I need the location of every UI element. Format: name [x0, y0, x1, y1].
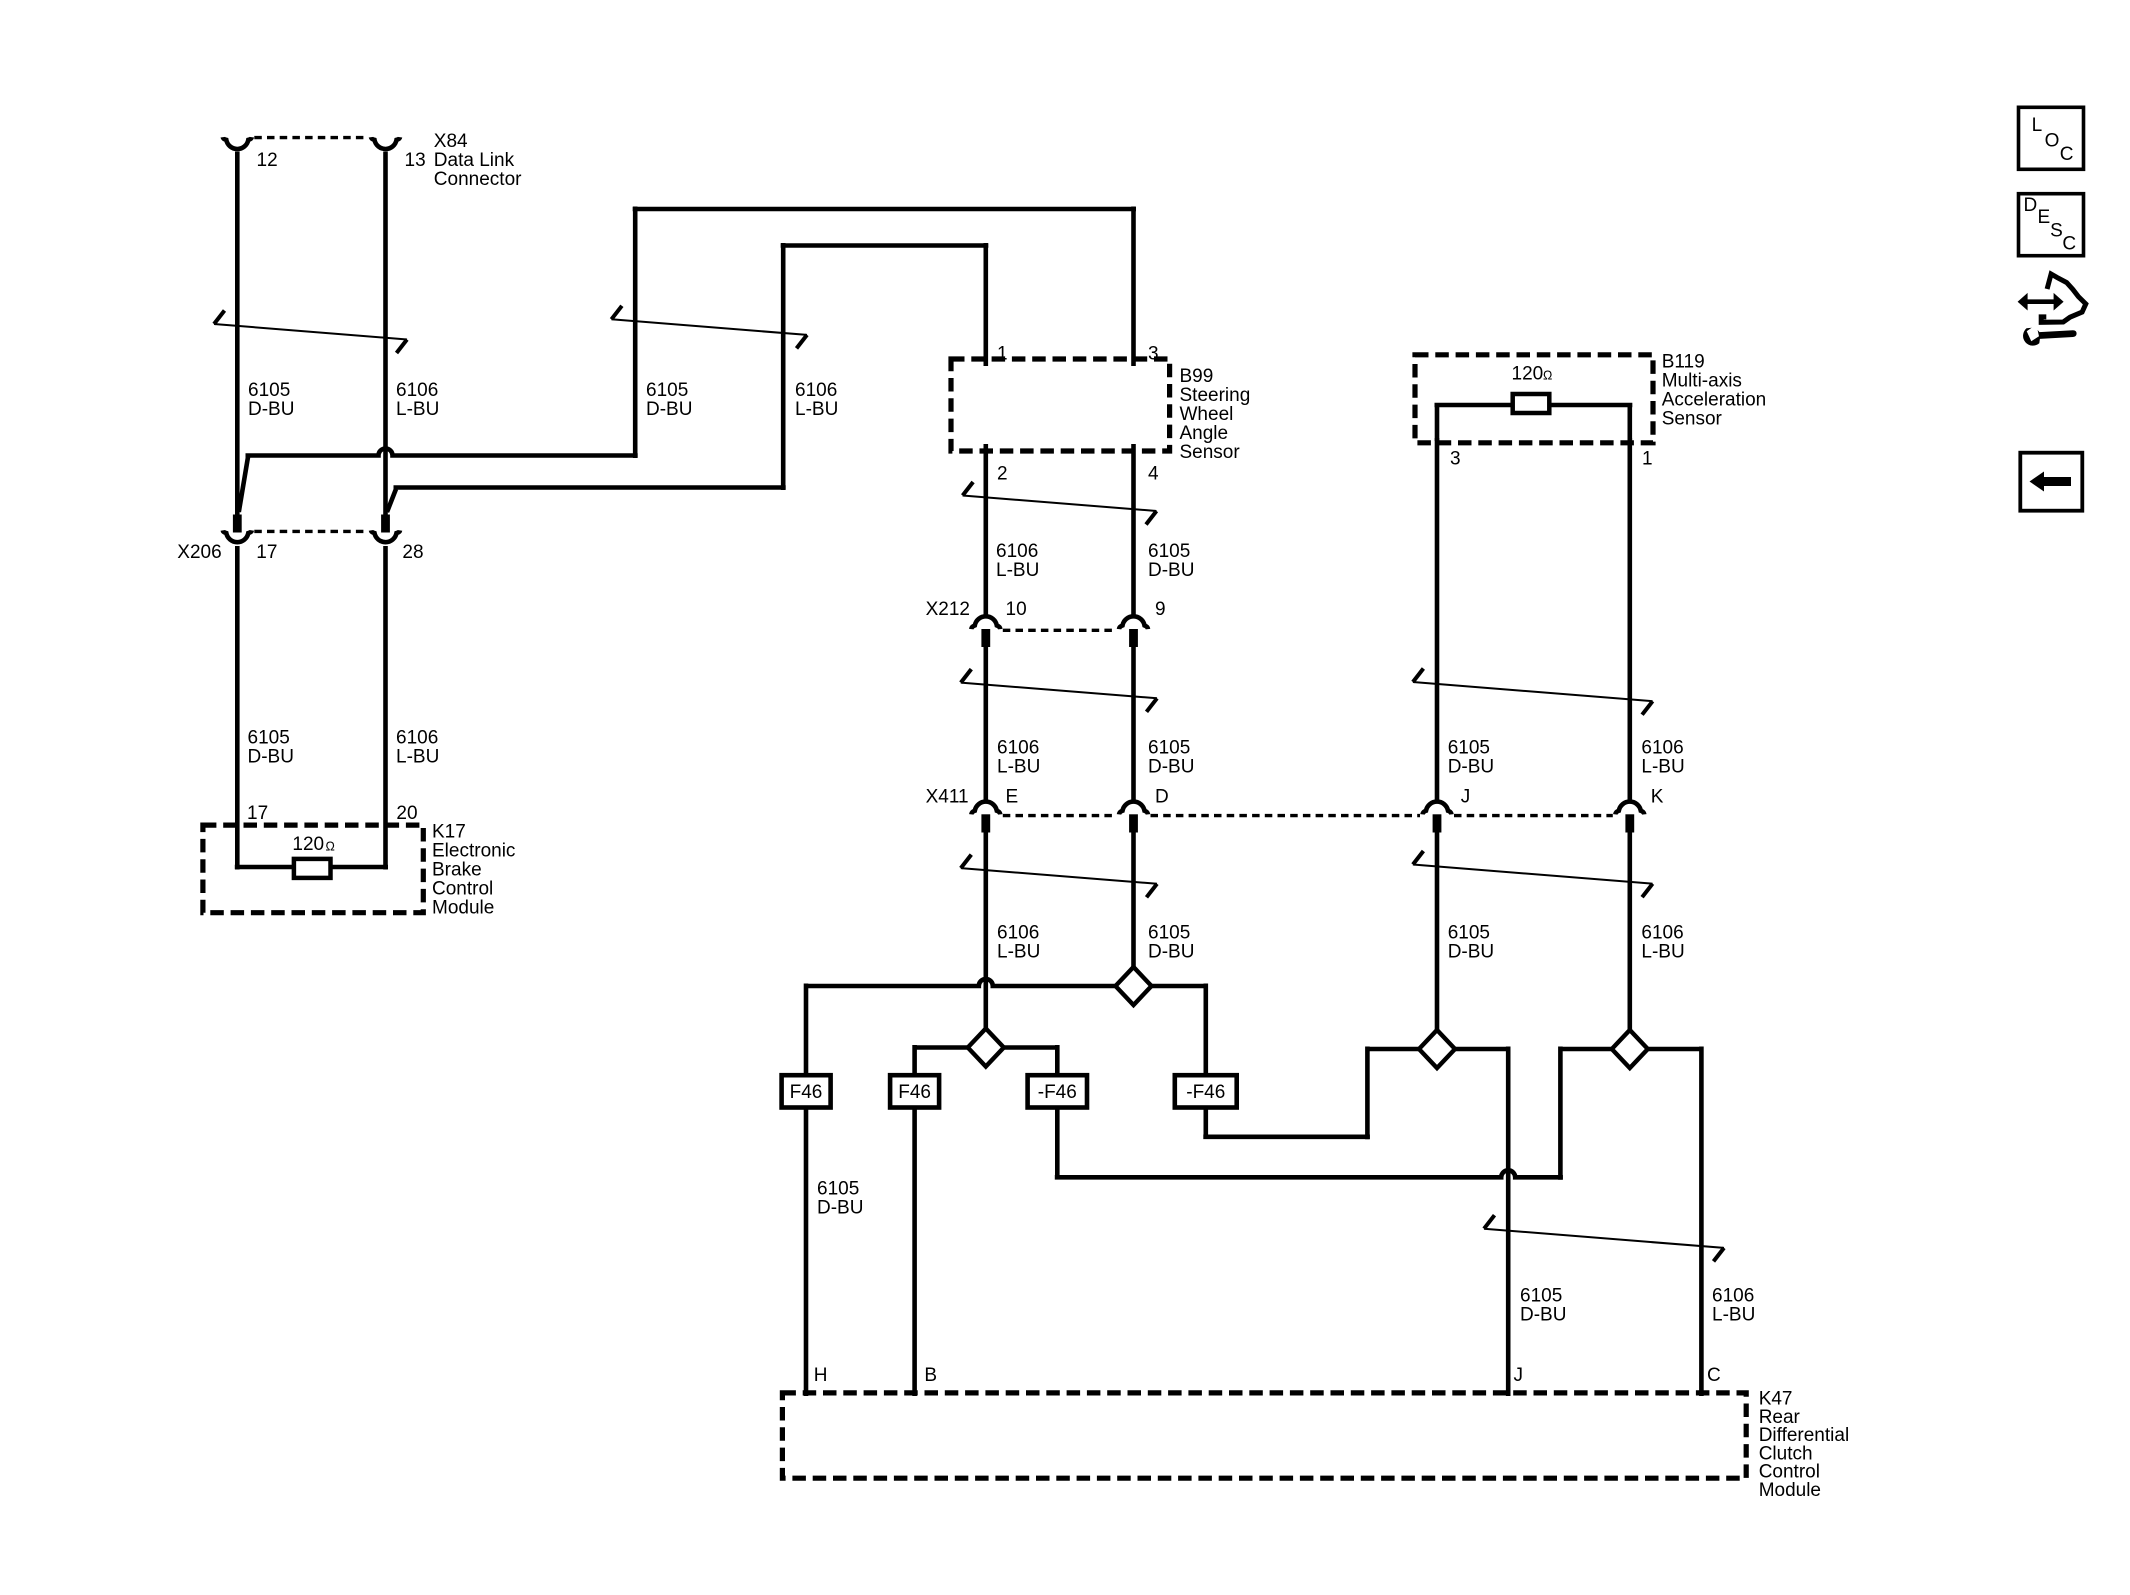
svg-text:-F46: -F46	[1186, 1082, 1225, 1103]
svg-text:Module: Module	[432, 898, 494, 919]
wire splice-E horizontal left	[915, 1045, 968, 1050]
svg-text:6106: 6106	[996, 541, 1038, 562]
svg-text:L-BU: L-BU	[1641, 757, 1684, 778]
svg-text:C: C	[1707, 1365, 1721, 1386]
svg-text:6105: 6105	[1520, 1286, 1562, 1307]
icon DESC box	[2019, 194, 2084, 256]
svg-text:Electronic: Electronic	[432, 841, 515, 862]
svg-text:6106: 6106	[396, 728, 438, 749]
wire inner loop top	[781, 243, 989, 248]
svg-text:Wheel: Wheel	[1180, 404, 1234, 425]
svg-text:E: E	[1006, 787, 1019, 808]
svg-text:X411: X411	[926, 787, 969, 808]
wire drop to F46 no2	[912, 1045, 917, 1077]
fuse box F46 no2	[890, 1075, 939, 1107]
wire 6105 X84-12 to X206-17	[235, 152, 240, 515]
svg-text:L-BU: L-BU	[1712, 1305, 1755, 1326]
twisted pair marker loop pair	[611, 319, 807, 335]
wire outer loop right leg to B99 pin 3	[1131, 207, 1136, 367]
svg-text:Angle: Angle	[1180, 423, 1229, 444]
connector X411 pin D terminal	[1119, 802, 1148, 815]
connector X411 dashed line seg E-D	[1003, 814, 1117, 817]
svg-text:X84: X84	[434, 131, 468, 152]
wire branch junction A	[239, 457, 248, 512]
svg-text:F46: F46	[790, 1082, 823, 1103]
wire outer loop left leg	[633, 207, 638, 459]
svg-text:D-BU: D-BU	[1148, 560, 1194, 581]
svg-text:6106: 6106	[1641, 923, 1683, 944]
fuse box -F46 no4	[1175, 1075, 1237, 1107]
wire inner loop left leg	[781, 243, 786, 490]
svg-text:C: C	[2062, 234, 2076, 255]
svg-text:D-BU: D-BU	[248, 747, 294, 768]
twisted pair marker bottom JC	[1484, 1229, 1724, 1248]
connector X84 pin 13 terminal	[371, 137, 400, 149]
connector X411 dashed line seg J-K	[1454, 814, 1613, 817]
wire splice-F horizontal left	[806, 979, 1116, 986]
connector X411 dashed line seg D-J	[1151, 814, 1421, 817]
svg-text:D-BU: D-BU	[248, 399, 294, 420]
svg-text:6105: 6105	[1148, 738, 1190, 759]
svg-text:6105: 6105	[817, 1179, 859, 1200]
connector X206 pin 17 terminal	[223, 530, 252, 542]
wire -F46 no4 horizontal	[1203, 1135, 1370, 1140]
wire -F46 no4 to splice J path	[1204, 1108, 1209, 1137]
connector X411 pin E male pin	[981, 814, 990, 832]
svg-text:B99: B99	[1180, 366, 1214, 387]
connector X212 pin 10 male pin	[981, 629, 990, 647]
wire branch junction B	[387, 489, 396, 512]
svg-text:6105: 6105	[646, 380, 688, 401]
svg-text:6106: 6106	[997, 738, 1039, 759]
svg-text:E: E	[2038, 207, 2051, 228]
fuse box -F46 no3	[1028, 1075, 1087, 1107]
svg-text:K17: K17	[432, 822, 466, 843]
component K17 dashed box	[203, 825, 423, 913]
wire 6106 X411-K to splice	[1628, 830, 1633, 1032]
component K47 dashed box	[782, 1393, 1746, 1478]
svg-text:Data Link: Data Link	[434, 150, 515, 171]
wire splice K to K47-C	[1699, 1047, 1704, 1397]
wire 6106 X84-13 to X206-28	[383, 152, 388, 515]
svg-text:Ω: Ω	[1543, 369, 1552, 383]
svg-text:Module: Module	[1759, 1480, 1821, 1501]
svg-text:L-BU: L-BU	[396, 399, 439, 420]
svg-text:Acceleration: Acceleration	[1662, 390, 1767, 411]
svg-text:C: C	[2060, 144, 2074, 165]
wire 6106 B99-2 to X212-10	[983, 444, 988, 617]
connector X212 pin 10 terminal	[971, 616, 1000, 629]
splice diamond on 6106 (E)	[968, 1029, 1004, 1067]
connector X411 pin K terminal	[1615, 802, 1644, 815]
svg-text:X212: X212	[926, 599, 970, 620]
svg-text:9: 9	[1155, 599, 1166, 620]
svg-text:B: B	[924, 1365, 937, 1386]
wire splice J to K47-J	[1506, 1047, 1511, 1397]
connector X206 pin 28 terminal	[371, 530, 400, 542]
twisted pair marker X84 pair	[214, 324, 407, 340]
wire 6105 X212-9 to X411-D	[1131, 645, 1136, 803]
wire 6106 X212-10 to X411-E	[983, 645, 988, 803]
svg-text:X206: X206	[177, 542, 221, 563]
svg-text:K: K	[1651, 787, 1664, 808]
svg-text:D: D	[1155, 787, 1169, 808]
wire B119 internal right	[1628, 403, 1633, 441]
splice diamond on 6106 (K)	[1612, 1030, 1648, 1068]
svg-text:D-BU: D-BU	[1448, 757, 1494, 778]
svg-text:L-BU: L-BU	[996, 560, 1039, 581]
wire outer loop top	[633, 207, 1136, 212]
svg-text:B119: B119	[1662, 352, 1705, 373]
wire horizontal junction B to inner loop leg	[394, 485, 786, 490]
icon LOC box	[2019, 107, 2084, 169]
wire 6105 F46 no1 to K47-H	[804, 1108, 809, 1397]
wire 6106 F46 no2 to K47-B	[912, 1108, 917, 1397]
svg-text:6106: 6106	[1641, 738, 1683, 759]
fuse box F46 no1	[782, 1075, 831, 1107]
svg-text:120: 120	[1512, 364, 1544, 385]
wire splice-J horizontal right	[1455, 1047, 1508, 1052]
svg-text:D: D	[2024, 195, 2038, 216]
wire 6105 X411-J to splice	[1435, 830, 1440, 1032]
svg-text:Steering: Steering	[1180, 385, 1251, 406]
wire horizontal junction A to loop leg	[246, 449, 638, 456]
svg-text:6106: 6106	[1712, 1286, 1754, 1307]
svg-text:F46: F46	[898, 1082, 931, 1103]
wire riser to splice K	[1558, 1047, 1563, 1180]
svg-text:2: 2	[997, 464, 1008, 485]
twisted pair marker X411-splice JK	[1413, 865, 1653, 884]
svg-text:13: 13	[405, 150, 426, 171]
svg-text:6105: 6105	[1148, 541, 1190, 562]
connector X411 pin J male pin	[1433, 814, 1442, 832]
wire drop to F46 no1	[804, 984, 809, 1078]
svg-text:20: 20	[396, 803, 417, 824]
splice diamond on 6105 (D)	[1116, 967, 1152, 1005]
connector X206 dashed line	[254, 530, 368, 533]
wire splice-J horizontal left	[1367, 1047, 1419, 1052]
wire riser to splice J	[1365, 1047, 1370, 1140]
svg-text:10: 10	[1006, 599, 1027, 620]
wire B119 internal left	[1435, 403, 1440, 441]
svg-text:6105: 6105	[248, 728, 290, 749]
wire 6105 X206-17 to K17	[235, 546, 240, 870]
splice diamond on 6105 (J)	[1419, 1030, 1455, 1068]
twisted pair marker X212-X411	[961, 683, 1157, 699]
resistor 120 ohm B119	[1513, 394, 1550, 413]
svg-text:J: J	[1514, 1365, 1524, 1386]
connector X206 pin 17 male pin	[233, 515, 242, 533]
svg-text:3: 3	[1450, 449, 1461, 470]
svg-text:Sensor: Sensor	[1662, 409, 1723, 430]
svg-text:L-BU: L-BU	[396, 747, 439, 768]
svg-text:17: 17	[247, 803, 268, 824]
svg-text:J: J	[1461, 787, 1471, 808]
connector X212 pin 9 terminal	[1119, 616, 1148, 629]
svg-text:H: H	[814, 1365, 828, 1386]
svg-text:28: 28	[402, 542, 423, 563]
connector X212 pin 9 male pin	[1129, 629, 1138, 647]
svg-text:Ω: Ω	[326, 840, 335, 854]
svg-text:O: O	[2045, 130, 2060, 151]
connector X84 pin 12 terminal	[223, 137, 252, 149]
wire 6105 B119-3 to X411-J	[1435, 438, 1440, 803]
svg-text:D-BU: D-BU	[1520, 1305, 1566, 1326]
svg-text:L-BU: L-BU	[997, 757, 1040, 778]
svg-text:6105: 6105	[248, 380, 290, 401]
svg-text:D-BU: D-BU	[1448, 942, 1494, 963]
svg-text:1: 1	[1642, 449, 1653, 470]
wire inner loop right leg to B99 pin 1	[983, 243, 988, 366]
svg-text:3: 3	[1148, 344, 1159, 365]
svg-text:17: 17	[256, 542, 277, 563]
svg-text:D-BU: D-BU	[817, 1198, 863, 1219]
twisted pair marker X411-splice EF	[961, 868, 1157, 884]
component B119 dashed box	[1415, 355, 1653, 443]
svg-text:6106: 6106	[795, 380, 837, 401]
svg-text:Brake: Brake	[432, 860, 482, 881]
svg-text:6105: 6105	[1448, 923, 1490, 944]
icon back arrow box	[2020, 453, 2082, 511]
connector X411 pin E terminal	[971, 802, 1000, 815]
wire 6105 X411-D to splice	[1131, 830, 1136, 969]
connector X212 dashed line	[1003, 629, 1117, 632]
svg-text:Control: Control	[432, 879, 493, 900]
wire -F46 no3 horizontal	[1055, 1170, 1563, 1177]
wire 6106 X206-28 to K17	[383, 546, 388, 870]
icon repair instructions	[2018, 293, 2064, 311]
svg-text:L-BU: L-BU	[795, 399, 838, 420]
svg-text:L-BU: L-BU	[1641, 942, 1684, 963]
svg-text:L: L	[2032, 115, 2043, 136]
wire 6106 B119-1 to X411-K	[1628, 438, 1633, 803]
svg-text:Multi-axis: Multi-axis	[1662, 371, 1742, 392]
svg-text:Sensor: Sensor	[1180, 442, 1241, 463]
connector X411 pin J terminal	[1423, 802, 1452, 815]
svg-text:D-BU: D-BU	[1148, 757, 1194, 778]
connector X84 dashed line	[254, 136, 368, 139]
connector X411 pin D male pin	[1129, 814, 1138, 832]
svg-text:Connector: Connector	[434, 169, 522, 190]
svg-text:4: 4	[1148, 464, 1159, 485]
svg-text:6106: 6106	[396, 380, 438, 401]
wire 6106 X411-E to splice	[983, 830, 988, 1030]
svg-text:D-BU: D-BU	[1148, 942, 1194, 963]
wire drop to -F46 no4	[1204, 984, 1209, 1078]
svg-text:1: 1	[997, 344, 1008, 365]
wire 6105 B99-4 to X212-9	[1131, 444, 1136, 617]
svg-text:6106: 6106	[997, 923, 1039, 944]
connector X206 pin 28 male pin	[381, 515, 390, 533]
svg-text:6105: 6105	[1448, 738, 1490, 759]
wire -F46 no3 to splice K path	[1055, 1108, 1060, 1178]
svg-text:S: S	[2050, 220, 2063, 241]
svg-text:-F46: -F46	[1038, 1082, 1077, 1103]
resistor 120 ohm K17	[294, 859, 331, 878]
wire splice-F horizontal right	[1152, 984, 1206, 989]
svg-text:L-BU: L-BU	[997, 942, 1040, 963]
wire B119 internal horizontal	[1435, 403, 1633, 408]
svg-text:D-BU: D-BU	[646, 399, 692, 420]
connector X411 pin K male pin	[1625, 814, 1634, 832]
twisted pair marker below B99	[963, 496, 1157, 512]
wire K17 internal horizontal	[235, 865, 388, 870]
wire drop to -F46 no3	[1055, 1045, 1060, 1077]
wire splice-E horizontal right	[1004, 1045, 1058, 1050]
svg-text:6105: 6105	[1148, 923, 1190, 944]
component B99 dashed box	[951, 359, 1170, 451]
wire splice-K horizontal left	[1560, 1047, 1611, 1052]
wire splice-K horizontal right	[1648, 1047, 1702, 1052]
svg-text:12: 12	[257, 150, 278, 171]
svg-text:120: 120	[292, 834, 324, 855]
twisted pair marker B119-X411	[1413, 682, 1653, 701]
